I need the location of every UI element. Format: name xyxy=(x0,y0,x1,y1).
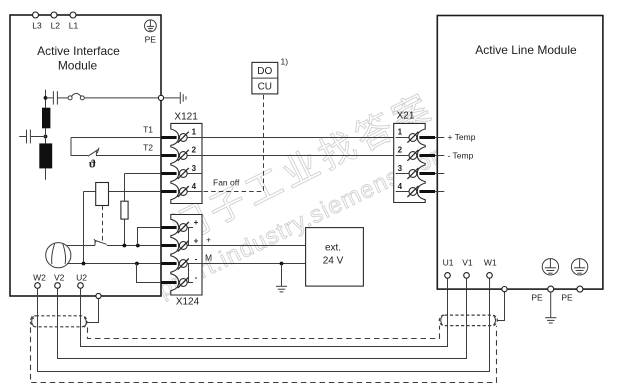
svg-text:1): 1) xyxy=(281,57,289,67)
coil actuation dashed link xyxy=(102,206,104,241)
junction dot coil branch xyxy=(82,262,86,266)
terminal U2 xyxy=(76,272,87,288)
svg-text:M: M xyxy=(205,253,212,263)
svg-text:1: 1 xyxy=(192,128,197,137)
svg-text:X124: X124 xyxy=(176,297,200,308)
svg-text:X21: X21 xyxy=(397,111,415,122)
connector X124 xyxy=(171,215,202,308)
terminal L2 xyxy=(51,12,61,31)
ground symbol M xyxy=(276,264,287,292)
functional earth right of node xyxy=(164,92,186,104)
svg-text:PE: PE xyxy=(561,293,573,303)
svg-text:3: 3 xyxy=(398,164,403,173)
svg-text:1: 1 xyxy=(398,128,403,137)
wire W2 run xyxy=(38,278,490,371)
ground symbol under PE1 xyxy=(545,292,556,323)
X21 pin 1 xyxy=(396,128,445,143)
svg-text:2: 2 xyxy=(398,146,403,155)
shield dashed outer xyxy=(31,326,497,383)
svg-text:DO: DO xyxy=(257,66,272,77)
temp sensor wire X121.1 to X21.1 xyxy=(202,137,409,139)
contactor coil K1 wire X121.4 xyxy=(84,191,96,193)
node junction filter top xyxy=(44,96,48,100)
svg-text:ext.: ext. xyxy=(325,243,341,254)
terminal W2 xyxy=(33,272,46,288)
X21 pin 4 xyxy=(396,182,445,197)
connector X21 xyxy=(394,111,426,203)
watermark xyxy=(154,85,456,303)
Active Line Module box xyxy=(437,16,603,290)
junction dot resistor branch xyxy=(123,244,127,248)
wire 24V plus xyxy=(187,245,305,247)
svg-text:Fan off: Fan off xyxy=(213,178,240,188)
resistor R1 xyxy=(121,201,128,219)
thermostat wire T2 xyxy=(96,155,161,157)
fan switch wire xyxy=(67,245,95,247)
terminal L3 xyxy=(32,12,42,31)
X121 pin 4 xyxy=(161,182,202,197)
capacitor C2 left xyxy=(19,130,45,144)
wire X124.4 jumper xyxy=(137,264,162,283)
X21 pin 3 xyxy=(396,164,445,179)
shield wire from ALM node xyxy=(497,292,504,321)
X124 pin 1 xyxy=(161,218,199,233)
node on ALM bottom border xyxy=(502,287,507,292)
wire coil branch vertical xyxy=(83,192,85,264)
svg-text:+: + xyxy=(194,236,199,245)
svg-text:- Temp: - Temp xyxy=(448,150,474,160)
wire X124.1 jumper xyxy=(138,228,162,246)
junction dot M ground xyxy=(280,262,284,266)
junction dot filter mid xyxy=(44,135,48,139)
wire stub below filter xyxy=(45,168,47,179)
X124 jumper 3-4 xyxy=(188,264,190,283)
shield wire from AIM node xyxy=(87,299,99,323)
terminal V2 xyxy=(54,272,65,288)
svg-text:-: - xyxy=(195,254,198,263)
inductor L-filter 1 xyxy=(42,108,50,129)
contactor coil K1 xyxy=(96,183,109,206)
Active Interface Module box xyxy=(10,15,161,296)
thermostat wire T1 xyxy=(71,137,161,139)
inductor L-filter 2 xyxy=(39,143,52,168)
svg-text:V1: V1 xyxy=(462,258,473,268)
svg-text:L3: L3 xyxy=(32,21,42,31)
terminal U1 xyxy=(443,258,454,290)
thermostat loop left xyxy=(71,138,88,156)
svg-text:4: 4 xyxy=(192,182,197,191)
shield clamp left xyxy=(30,316,87,327)
temp sensor wire X121.2 to X21.2 xyxy=(202,155,409,157)
svg-text:PE: PE xyxy=(531,293,543,303)
svg-text:L2: L2 xyxy=(51,21,61,31)
svg-text:2: 2 xyxy=(192,146,197,155)
X121 pin 2 xyxy=(161,146,202,161)
X121 pin 3 xyxy=(161,164,202,179)
svg-text:CU: CU xyxy=(258,82,272,93)
X21 pin 2 xyxy=(396,146,445,161)
terminal W1 xyxy=(484,258,497,290)
fan M1 xyxy=(46,243,71,268)
svg-text:T1: T1 xyxy=(143,125,153,135)
svg-text:-: - xyxy=(195,273,198,282)
svg-text:4: 4 xyxy=(398,182,403,191)
wire stub top of filter xyxy=(45,90,47,108)
svg-text:24 V: 24 V xyxy=(323,255,344,266)
wire V2 run xyxy=(58,278,467,358)
shield clamp right xyxy=(439,315,497,326)
svg-text:+: + xyxy=(194,218,199,227)
Fan off dashed wire xyxy=(204,94,264,192)
X124 pin 4 xyxy=(161,273,198,288)
node on AIM right border xyxy=(158,95,163,100)
svg-text:U2: U2 xyxy=(76,272,87,282)
svg-text:Active Interface: Active Interface xyxy=(37,44,120,58)
shield dashed inner xyxy=(88,326,440,339)
svg-text:Active Line Module: Active Line Module xyxy=(475,43,577,57)
svg-text:+: + xyxy=(206,235,211,245)
junction dot X124.1 branch xyxy=(136,244,140,248)
svg-text:PE: PE xyxy=(145,35,157,45)
PE symbol AIM xyxy=(145,20,157,32)
PE earth symbol 1 xyxy=(542,259,558,275)
X124 jumper 1-2 xyxy=(188,228,190,246)
svg-text:Module: Module xyxy=(58,59,98,73)
svg-text:X121: X121 xyxy=(174,112,198,123)
svg-text:T2: T2 xyxy=(143,143,153,153)
connector X121 xyxy=(171,112,202,204)
capacitor C1 xyxy=(46,91,69,104)
wire switch to X124.2 xyxy=(107,245,161,247)
terminal L1 xyxy=(69,12,79,31)
PE terminal 1 xyxy=(548,286,554,292)
X124 pin 2 xyxy=(161,236,199,251)
X124 pin 3 xyxy=(161,254,198,269)
X121 pin 1 xyxy=(161,128,202,143)
svg-text:ϑ: ϑ xyxy=(89,157,96,171)
junction dot X124.4 branch xyxy=(135,262,139,266)
svg-text:V2: V2 xyxy=(54,272,65,282)
svg-text:W1: W1 xyxy=(484,258,497,268)
wire 24V M xyxy=(187,263,305,265)
svg-text:W2: W2 xyxy=(33,272,46,282)
DO/CU box xyxy=(252,57,288,94)
wire U2 run xyxy=(81,278,448,346)
PE terminal 2 xyxy=(577,286,583,292)
svg-text:L1: L1 xyxy=(69,21,79,31)
wire X121.3 internal xyxy=(125,173,162,175)
switch S1 xyxy=(68,93,84,100)
node on AIM bottom border xyxy=(96,293,101,298)
svg-text:U1: U1 xyxy=(443,258,454,268)
svg-text:3: 3 xyxy=(192,164,197,173)
fan bottom wire to X124.3 xyxy=(67,263,161,265)
terminal V1 xyxy=(462,258,473,290)
ext 24V box xyxy=(306,228,364,287)
wire between inductors xyxy=(45,128,47,143)
wire to right border node xyxy=(84,97,158,99)
PE earth symbol 2 xyxy=(571,259,587,275)
fan switch blade xyxy=(95,241,106,245)
svg-text:+ Temp: + Temp xyxy=(448,132,476,142)
thermostat contact blade xyxy=(88,149,99,156)
